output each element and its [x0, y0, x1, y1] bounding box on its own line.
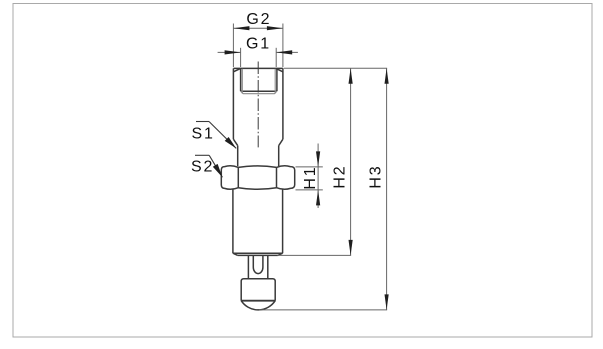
dimension H2 [350, 68, 352, 255]
left shaft wall [237, 146, 239, 167]
hex nut S2 [221, 166, 294, 190]
H1 extension line top [296, 166, 323, 168]
bottom face [238, 254, 278, 256]
knob outline [241, 279, 275, 301]
leader S2 [195, 155, 222, 177]
H1 extension line bottom [296, 189, 323, 191]
G1 extension line right [275, 48, 277, 67]
H1 arrow bottom [316, 190, 320, 206]
H3 arrow top [385, 68, 389, 84]
svg-text:H2: H2 [332, 165, 349, 189]
svg-text:H3: H3 [368, 165, 385, 189]
svg-text:S2: S2 [191, 159, 214, 176]
top edge [233, 67, 283, 69]
S2 leader horizontal [195, 154, 209, 156]
left transition chamfer [233, 139, 237, 145]
H2 arrow top [349, 68, 353, 84]
dome tangent line [241, 300, 275, 302]
G1 dimension line left [218, 51, 241, 53]
right chamfer [276, 68, 283, 71]
bore minor bottom [241, 91, 277, 94]
right bottom chamfer [278, 253, 283, 255]
G2 dimension line [233, 27, 283, 29]
nut facet line right [276, 167, 278, 187]
G2 arrow right [267, 26, 283, 30]
bore major line left [240, 68, 242, 91]
G2 arrow left [233, 26, 249, 30]
top extension line to H2/H3 [284, 67, 387, 69]
bore major line right [276, 68, 278, 91]
svg-text:S1: S1 [192, 126, 215, 143]
centerline [257, 62, 259, 148]
right transition chamfer [279, 139, 283, 145]
S2 leader diagonal [209, 155, 222, 177]
H1 dimension line [317, 144, 319, 209]
pin slot [253, 255, 263, 273]
knob head [241, 279, 275, 310]
bore minor line right [274, 69, 276, 94]
dimension G1 [218, 48, 298, 67]
H2 arrow bottom [349, 240, 353, 256]
G2 extension line left [232, 24, 234, 68]
bore bottom [241, 90, 277, 92]
leader S1 [196, 122, 236, 149]
G1 extension line left [240, 48, 242, 67]
G1 arrow left [225, 50, 241, 54]
right shaft wall [278, 146, 280, 167]
pin right wall [267, 255, 269, 278]
svg-text:G1: G1 [246, 35, 271, 52]
lower body [233, 189, 283, 256]
G1 dimension line right [276, 51, 298, 53]
H2 bottom extension line [278, 254, 351, 256]
nut outline [221, 166, 294, 190]
nut facet line left [237, 167, 239, 187]
right outer wall [282, 68, 284, 139]
body outline: threaded sleeve top section [233, 68, 283, 166]
plunger pin [248, 255, 267, 278]
bore minor line left [241, 69, 243, 94]
dome [241, 301, 275, 310]
thread bore [241, 68, 277, 93]
left outer wall [232, 68, 234, 139]
dimension H3 [386, 68, 388, 310]
dimension H1 [296, 144, 323, 209]
S1 leader diagonal [209, 122, 236, 149]
lower body right wall [282, 189, 284, 253]
G1 arrow right [276, 50, 292, 54]
lower body left wall [232, 189, 234, 253]
left bottom chamfer [233, 253, 238, 255]
S1 arrowhead [225, 137, 237, 148]
H3 arrow bottom [385, 294, 389, 310]
pin left wall [247, 255, 249, 278]
svg-text:H1: H1 [302, 166, 319, 190]
H3 bottom extension line [259, 309, 387, 311]
S2 arrowhead [213, 164, 223, 177]
svg-text:G2: G2 [246, 11, 271, 28]
G2 extension line right [282, 24, 284, 68]
chamfer tangent line [233, 252, 283, 254]
dimension G2 [233, 24, 283, 68]
H1 arrow top [316, 151, 320, 167]
S1 leader horizontal [196, 121, 209, 123]
left chamfer [233, 68, 240, 71]
